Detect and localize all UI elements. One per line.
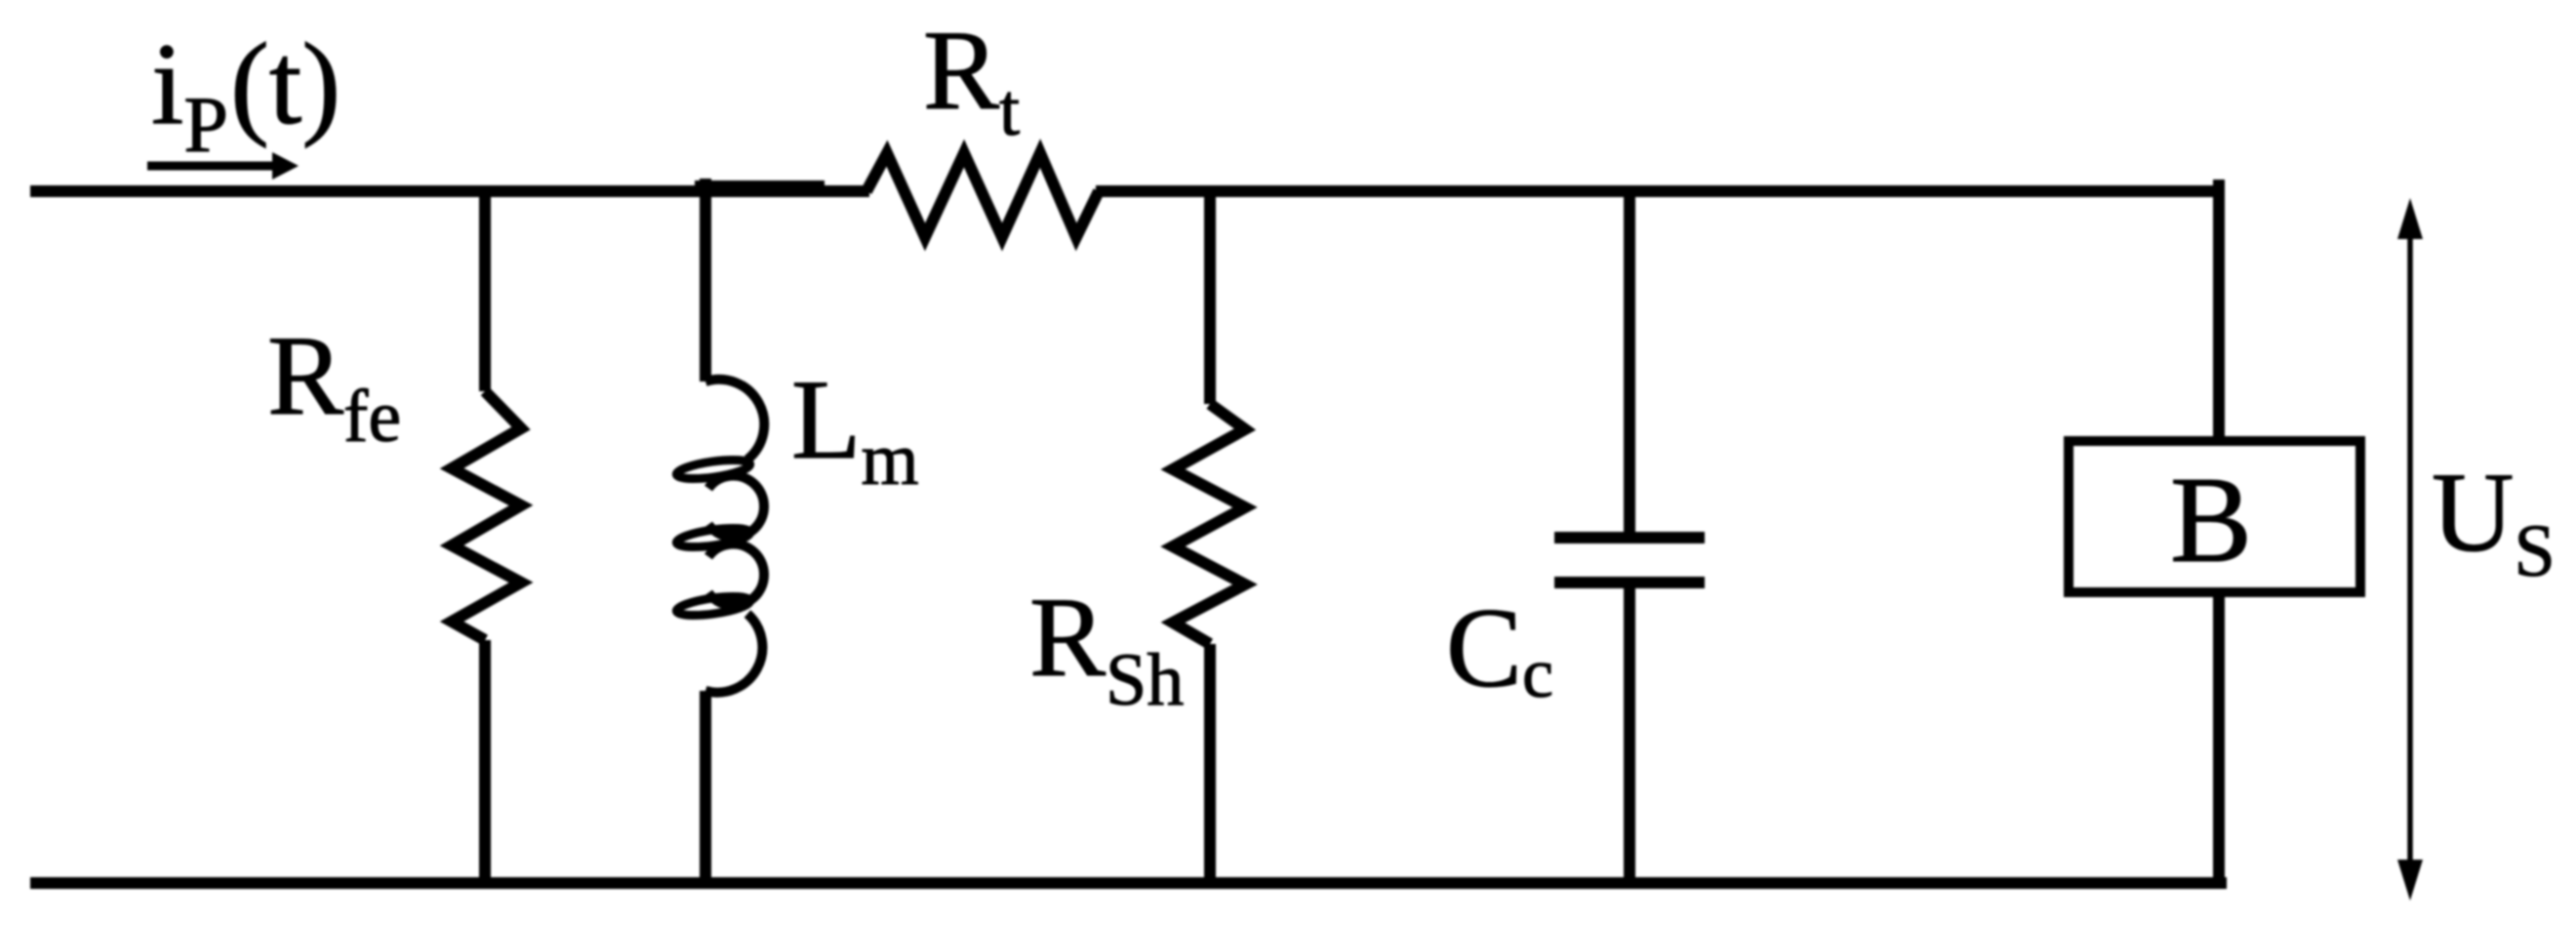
resistor R_t	[866, 153, 1099, 237]
wire R_fe lower lead	[479, 640, 491, 888]
wire L_m lower lead	[700, 691, 711, 888]
wire bottom	[30, 877, 2227, 889]
current arrow i_P	[147, 152, 299, 180]
wire C_c lower lead	[1624, 583, 1635, 888]
wire right branch upper	[2213, 186, 2225, 441]
box B	[2069, 441, 2360, 592]
wire L_m upper lead	[700, 186, 711, 382]
inductor L_m	[675, 380, 764, 693]
wire top right segment	[1096, 185, 2219, 197]
node stub above L_m junction	[700, 179, 711, 191]
wire R_Sh lower lead	[1204, 644, 1216, 888]
svg-text:B: B	[2170, 453, 2252, 588]
wire R_fe upper lead	[479, 186, 491, 391]
voltage arrow U_S	[2397, 198, 2423, 901]
wire C_c upper lead	[1624, 186, 1635, 538]
wire top left segment	[30, 185, 869, 197]
svg-text:iP(t): iP(t)	[151, 19, 341, 169]
wire overlap artifact right of L_m junction	[695, 181, 825, 192]
capacitor C_c plates	[1554, 538, 1705, 583]
wire right branch lower	[2213, 592, 2225, 888]
wire R_Sh upper lead	[1204, 186, 1216, 404]
node stub above right corner	[2213, 180, 2225, 191]
resistor R_Sh	[1173, 404, 1245, 644]
resistor R_fe	[452, 391, 521, 640]
